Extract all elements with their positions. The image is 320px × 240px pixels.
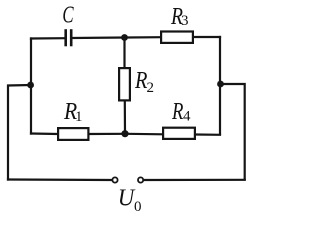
wire bottom-left to terminal	[8, 178, 112, 181]
svg-text:2: 2	[147, 80, 155, 96]
label R3	[170, 2, 188, 29]
node left junction dot	[27, 82, 34, 89]
resistor R4	[163, 128, 195, 139]
node A junction dot	[121, 34, 128, 41]
resistor R2	[119, 68, 130, 100]
node right junction dot	[217, 81, 224, 88]
svg-text:0: 0	[134, 199, 142, 213]
label R2	[134, 66, 154, 95]
resistor R1	[58, 128, 88, 140]
wire node B to R4	[125, 133, 162, 136]
label R4	[171, 98, 191, 125]
wire left corner to R1	[31, 132, 57, 135]
wire R4 to right vertical	[196, 133, 220, 136]
wire left outer branch	[8, 85, 31, 180]
terminal right (open circle)	[138, 177, 143, 182]
label R1	[63, 98, 82, 125]
node B junction dot	[121, 130, 128, 137]
svg-text:3: 3	[181, 13, 189, 29]
wire right outer branch	[221, 84, 245, 180]
wire R1 to node B	[90, 133, 126, 135]
wire node A to R2	[123, 38, 125, 68]
svg-text:R: R	[171, 98, 183, 125]
capacitor C	[66, 31, 72, 46]
wire top-left segment (corner to capacitor)	[31, 37, 65, 40]
label U0	[118, 185, 142, 215]
wire R3 to top-right corner	[194, 36, 220, 38]
wire right inner vertical	[219, 37, 221, 134]
svg-text:1: 1	[75, 109, 83, 125]
terminal left (open circle)	[112, 177, 117, 182]
label C	[62, 3, 73, 28]
svg-text:C: C	[62, 3, 73, 28]
wire terminal to bottom-right	[144, 179, 245, 181]
resistor R3	[161, 32, 193, 43]
wire R2 to node B	[124, 102, 126, 134]
wire capacitor to node A	[72, 36, 124, 39]
wire node A to R3	[125, 36, 161, 38]
svg-text:4: 4	[183, 109, 191, 125]
wire left inner vertical	[30, 39, 32, 134]
